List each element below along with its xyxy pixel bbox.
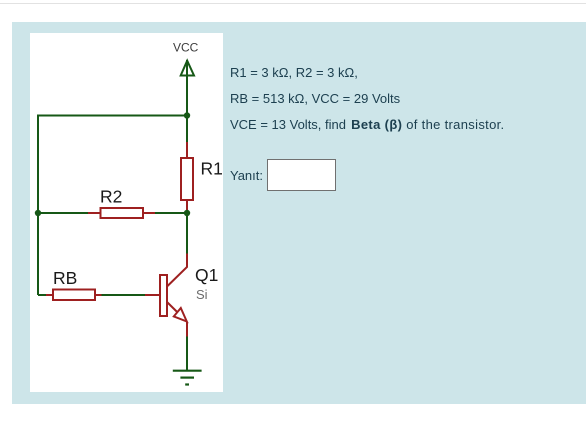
svg-text:VCC: VCC — [173, 41, 199, 55]
resistor R1 — [181, 158, 193, 200]
top hairline — [0, 3, 586, 4]
resistor RB — [53, 290, 95, 301]
answer input box — [267, 159, 336, 191]
wire VCC to node A — [186, 60, 188, 116]
svg-text:Si: Si — [196, 287, 208, 302]
Q1 emitter line — [167, 302, 187, 322]
svg-text:Q1: Q1 — [195, 265, 218, 285]
svg-text:R2: R2 — [100, 187, 122, 207]
wire node A to left rail — [38, 116, 187, 296]
wire left rail to RB — [38, 294, 46, 296]
white schematic panel — [30, 33, 223, 392]
question text line 3 — [230, 118, 504, 131]
wire emitter to ground — [186, 337, 188, 371]
wire node C to collector — [186, 216, 188, 254]
wire node B to R2 — [38, 212, 88, 214]
node C junction — [184, 210, 190, 216]
svg-text:RB: RB — [53, 268, 77, 288]
wire R2 to node C — [155, 212, 187, 214]
Q1 emitter arrow — [174, 308, 187, 322]
Q1 emitter pin — [186, 322, 188, 337]
label R2 — [100, 187, 122, 207]
wire node A to R1 — [186, 118, 188, 142]
wire RB to base — [102, 294, 146, 296]
Q1 collector pin — [167, 254, 187, 287]
Q1 base pin — [145, 294, 160, 296]
label Si — [196, 287, 208, 302]
question text line 1 — [230, 66, 358, 79]
label RB — [53, 268, 77, 288]
label R1 — [201, 159, 223, 179]
R1 bottom pin — [186, 200, 188, 212]
answer label — [230, 169, 263, 182]
R1 top pin — [186, 142, 188, 158]
resistor R2 — [101, 208, 144, 218]
RB right pin — [95, 294, 102, 296]
R2 left pin — [88, 212, 100, 214]
ground — [173, 371, 202, 385]
node B junction — [35, 210, 41, 216]
node A junction — [184, 112, 190, 118]
VCC label — [173, 41, 199, 55]
RB left pin — [46, 294, 53, 296]
svg-text:R1: R1 — [201, 159, 223, 179]
power symbol VCC (arrow) — [181, 61, 194, 76]
label Q1 — [195, 265, 218, 285]
transistor Q1 base bar — [160, 275, 167, 316]
R2 right pin — [143, 212, 155, 214]
question text line 2 — [230, 92, 400, 105]
